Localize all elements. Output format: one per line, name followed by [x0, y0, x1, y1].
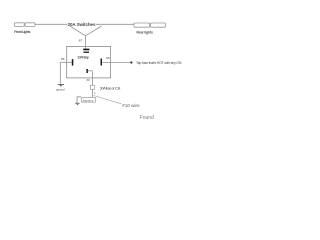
wire V right arm	[85, 26, 101, 36]
ground symbol battery	[75, 103, 79, 106]
wire top main bus right segment	[96, 23, 134, 25]
svg-text:87: 87	[79, 38, 83, 42]
wire to relay pin 86	[60, 61, 72, 63]
relay contact bar upper	[83, 49, 89, 51]
wire from pin 85 to keyed fuse tap	[102, 62, 131, 64]
svg-text:20A Switches: 20A Switches	[68, 22, 96, 27]
wire fuse to battery	[91, 89, 93, 97]
rear light lamp 2	[150, 23, 165, 27]
svg-text:30A Relay: 30A Relay	[77, 55, 89, 60]
relay pin 86 terminal bar	[72, 59, 74, 66]
wire battery negative	[77, 97, 81, 103]
relay contact bar lower	[84, 52, 90, 53]
rear light lamp 1	[134, 23, 150, 27]
front light lamp 1	[14, 23, 24, 27]
wire pin 30 jog right	[88, 70, 93, 72]
svg-text:Front Lights: Front Lights	[14, 30, 30, 34]
svg-text:30: 30	[86, 78, 90, 82]
wire to relay pin 87	[85, 36, 87, 49]
svg-text:Found: Found	[140, 115, 154, 121]
wire 86 down to ground	[59, 62, 61, 84]
front light lamp 2	[25, 23, 35, 27]
svg-text:Tap fuse that's HOT with key O: Tap fuse that's HOT with key ON	[136, 61, 182, 65]
fuse F1	[91, 85, 95, 89]
svg-text:30A fuse or C.B.: 30A fuse or C.B.	[100, 86, 121, 90]
callout line #10 wire	[94, 96, 122, 104]
svg-text:ground: ground	[56, 88, 65, 92]
wire pin 30 down to fuse	[91, 71, 93, 86]
wire top main bus left segment	[35, 23, 68, 25]
svg-text:86: 86	[61, 57, 65, 61]
battery B1	[81, 98, 95, 103]
ground symbol left	[58, 84, 64, 87]
svg-text:+: +	[94, 92, 96, 96]
svg-text:85: 85	[106, 56, 110, 60]
node keyed-hot endpoint dot	[130, 61, 132, 63]
svg-text:battery: battery	[83, 98, 94, 102]
svg-text:Rear lights: Rear lights	[136, 31, 153, 35]
svg-text:#10 wire: #10 wire	[122, 103, 140, 108]
relay pin 30 terminal bar	[86, 69, 88, 73]
relay pin 85 terminal bar	[101, 59, 103, 66]
relay U1 box	[67, 46, 111, 78]
wire V left arm	[70, 26, 86, 36]
